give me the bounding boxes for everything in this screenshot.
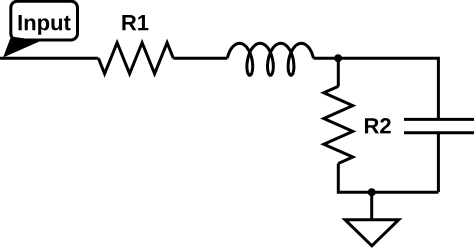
inductor L1 [227, 43, 313, 75]
wire bottom rail R2 to capacitor branch [338, 164, 438, 193]
label Input [19, 15, 71, 35]
ground symbol [345, 220, 399, 246]
label R2 [365, 118, 391, 133]
label R1 [122, 15, 148, 30]
wire L1 to node A and right to top-right corner, down to capacitor [314, 58, 439, 119]
junction node A [334, 54, 342, 62]
net flag tail [3, 37, 41, 58]
wire node A down to R2 [337, 58, 340, 86]
resistor R2 [324, 86, 353, 163]
wire capacitor bottom to bottom rail [437, 133, 440, 192]
wire input lead [0, 57, 98, 60]
resistor R1 [98, 43, 173, 74]
wire node B to ground [370, 192, 373, 220]
capacitor C1 top plate [404, 118, 474, 121]
capacitor C1 bottom plate [404, 131, 474, 134]
net flag Input callout box [11, 1, 78, 40]
wire R1 to L1 [173, 57, 227, 60]
junction node B [368, 188, 376, 196]
